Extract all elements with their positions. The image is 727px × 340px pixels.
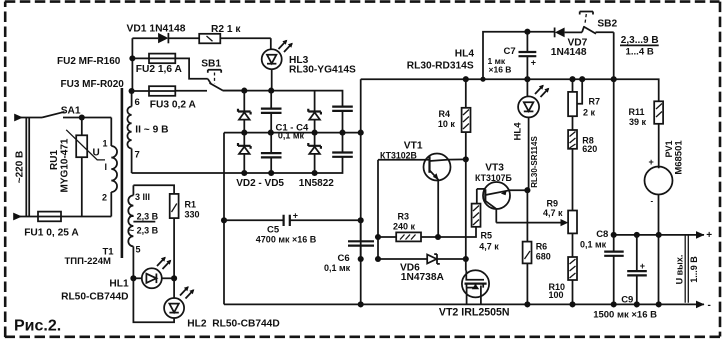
svg-text:+: +: [706, 230, 712, 241]
capacitor C1 (upper): [261, 91, 282, 133]
node: C9 bottom rail dot: [634, 301, 640, 307]
svg-text:FU1 0, 25 A: FU1 0, 25 A: [24, 228, 79, 239]
svg-text:-: -: [651, 197, 654, 206]
svg-text:1N4738A: 1N4738A: [401, 272, 445, 283]
wire: +output bus: [614, 234, 704, 236]
resistor R4: [462, 79, 471, 159]
svg-text:R5: R5: [481, 231, 493, 241]
node: top rail dot at VD column 1: [241, 88, 247, 94]
bridge top rail: [223, 91, 343, 106]
node: R10 bottom rail dot: [569, 301, 575, 307]
bridge middle rail: [224, 132, 361, 134]
svg-text:1...4 В: 1...4 В: [626, 46, 654, 57]
node: bus dot at R7: [569, 76, 575, 82]
svg-text:1500 мк ×16 В: 1500 мк ×16 В: [593, 310, 657, 321]
output terminal double bars: [685, 235, 688, 303]
node: HL1 right junction dot: [171, 275, 177, 281]
svg-text:SB1: SB1: [201, 59, 221, 70]
capacitor C4 (lower right): [332, 133, 353, 158]
LED HL4: [518, 79, 549, 190]
transistor VT1 КТ3102В: [378, 154, 466, 238]
svg-text:FU3 0,2 A: FU3 0,2 A: [150, 100, 197, 111]
varistor RU1: [66, 118, 105, 217]
wire: left vertical FU2/FU3 feeder: [131, 38, 133, 91]
svg-text:RL30-YG414S: RL30-YG414S: [289, 65, 356, 76]
svg-text:0,1 мк: 0,1 мк: [324, 263, 351, 273]
winding II (pins 6-7): [127, 91, 131, 173]
capacitor C2 (lower): [261, 133, 282, 173]
svg-text:HL1: HL1: [109, 278, 129, 289]
svg-text:U: U: [93, 148, 100, 159]
zener VD6 1N4738A: [378, 254, 466, 264]
node: +output dot at C8: [611, 232, 617, 238]
svg-text:1: 1: [103, 139, 108, 149]
node: R4/VT1 collector dot: [463, 156, 469, 162]
resistor R1: [170, 194, 179, 278]
winding III (pins 3-5) with center tap: [128, 185, 155, 278]
node: HL1 left junction dot: [130, 275, 136, 281]
capacitor C3 (upper right): [332, 106, 353, 133]
wire: C7 feeder L from bus up to VD7 line: [483, 32, 554, 79]
svg-text:+: +: [531, 57, 536, 67]
wire: VT1 base vertical x=378: [377, 160, 379, 259]
bridge bottom rail: [132, 157, 343, 173]
svg-text:VD1 1N4148: VD1 1N4148: [127, 24, 186, 35]
svg-text:R4: R4: [439, 109, 451, 119]
transformer T1 core: [121, 88, 124, 258]
svg-text:2 к: 2 к: [583, 107, 596, 117]
LED HL3: [262, 38, 293, 90]
capacitor C8: [604, 235, 624, 305]
schottky diode VD5 (lower right): [308, 133, 321, 173]
node: C8 bottom rail dot: [611, 301, 617, 307]
svg-text:М68501: М68501: [673, 140, 684, 175]
svg-text:FU3 MF-R020: FU3 MF-R020: [61, 79, 125, 90]
svg-text:6: 6: [135, 97, 140, 108]
svg-text:Рис.2.: Рис.2.: [14, 318, 61, 335]
node: middle rail dots: [241, 130, 247, 136]
node: VT3 emitter / HL4 column dot: [524, 187, 530, 193]
node: PV1 dot on +output: [656, 232, 662, 238]
wire: SB2 column down to +output: [613, 32, 615, 235]
node: SA1 row junction dot: [79, 114, 85, 120]
resistor R7 with tap: [568, 79, 582, 130]
svg-text:620: 620: [582, 144, 597, 154]
wire: bottom loop rail: [224, 303, 704, 305]
fuse FU3: [132, 86, 207, 96]
svg-text:×16 В: ×16 В: [489, 65, 512, 75]
pushbutton SB2: [580, 12, 614, 34]
wire: pin3 to R1 top: [133, 185, 174, 194]
svg-text:SB2: SB2: [597, 19, 617, 30]
svg-text:C8: C8: [596, 229, 608, 240]
svg-text:HL4: HL4: [455, 48, 475, 59]
svg-text:RL30-RD314S: RL30-RD314S: [407, 60, 474, 71]
svg-text:ТПП-224М: ТПП-224М: [65, 256, 111, 267]
svg-text:2: 2: [102, 193, 107, 203]
svg-text:КТ3107Б: КТ3107Б: [475, 173, 513, 183]
svg-text:680: 680: [536, 251, 551, 261]
svg-text:RL50-CB744D: RL50-CB744D: [212, 318, 279, 329]
schottky diode VD3 (upper right): [308, 91, 321, 133]
node: top rail dot at C column 1 / HL3: [268, 88, 274, 94]
LED HL2: [133, 278, 194, 322]
schottky diode VD4 (lower left): [238, 133, 251, 173]
svg-text:RL30-SR114S: RL30-SR114S: [530, 136, 539, 188]
node: bus dot at HL4 column: [524, 76, 530, 82]
node: C5 row left dot: [221, 217, 227, 223]
svg-text:КТ3102В: КТ3102В: [380, 150, 417, 160]
svg-text:10 к: 10 к: [438, 119, 456, 129]
svg-text:4700 мк ×16 В: 4700 мк ×16 В: [256, 235, 317, 245]
node: VD6 row dot at x=378: [375, 256, 381, 262]
svg-text:II ~ 9 В: II ~ 9 В: [135, 124, 168, 135]
node: bus dot at R7 tap: [579, 76, 585, 82]
svg-text:RL50-CB744D: RL50-CB744D: [61, 292, 128, 303]
transistor VT3 КТ3107Б: [477, 182, 528, 223]
svg-text:~ 2,3 В: ~ 2,3 В: [129, 226, 159, 236]
svg-text:1N5822: 1N5822: [299, 178, 334, 189]
svg-text:5: 5: [136, 245, 141, 255]
svg-text:R3: R3: [398, 211, 410, 221]
svg-text:-: -: [708, 300, 711, 311]
capacitor C5 (electrolytic 4700мк): [224, 210, 361, 226]
schottky diode VD2 (upper left): [238, 91, 251, 133]
capacitor C6: [348, 220, 374, 259]
svg-text:C6: C6: [338, 253, 350, 264]
diode VD1: [132, 33, 199, 43]
svg-text:R2 1 к: R2 1 к: [211, 24, 241, 35]
svg-text:R9: R9: [547, 198, 559, 208]
resistor R6: [523, 190, 532, 304]
node: bottom loop dot: [358, 301, 364, 307]
resistor R8: [568, 130, 577, 211]
capacitor C7 (1 мк): [519, 32, 537, 79]
node: bus dot at C7 feeder: [480, 77, 485, 82]
resistor R11: [654, 101, 663, 168]
svg-text:39 к: 39 к: [629, 117, 647, 127]
pushbutton SB1: [208, 70, 244, 91]
svg-text:C7: C7: [504, 46, 516, 57]
svg-text:0,1 мк: 0,1 мк: [278, 131, 305, 141]
svg-text:R11: R11: [629, 107, 645, 117]
diode VD7: [555, 28, 582, 38]
svg-text:100: 100: [549, 290, 564, 300]
svg-text:1...9 В: 1...9 В: [689, 256, 699, 283]
resistor R3: [378, 232, 476, 241]
resistor R5: [472, 204, 481, 237]
output minus arrowhead: [696, 301, 705, 309]
svg-text:VT2 IRL2505N: VT2 IRL2505N: [439, 306, 510, 318]
fuse FU1: [13, 212, 111, 222]
svg-text:R7: R7: [589, 97, 601, 107]
svg-text:+: +: [649, 157, 654, 167]
node: VD6 row left dot: [358, 256, 364, 262]
potentiometer R9: [568, 211, 577, 258]
svg-text:I: I: [105, 162, 108, 172]
switch SA1: [14, 112, 111, 122]
svg-text:330: 330: [185, 209, 200, 219]
LED HL1: [133, 257, 174, 289]
wire: right top bus y=79.2: [361, 79, 659, 101]
svg-text:HL2: HL2: [187, 318, 207, 329]
svg-text:HL4: HL4: [513, 122, 524, 141]
node: C7 top dot: [524, 29, 530, 35]
svg-text:1N4148: 1N4148: [551, 47, 587, 58]
node: +output dot at C9: [634, 232, 640, 238]
wire: collector column down to VD6 row: [465, 159, 467, 259]
wire: DC node vertical (x=360.7) from right bus down to bottom loop: [360, 79, 362, 304]
svg-text:R1: R1: [185, 200, 197, 210]
svg-text:C9: C9: [621, 295, 633, 306]
svg-text:3 III: 3 III: [135, 192, 150, 202]
svg-text:4,7 к: 4,7 к: [543, 208, 563, 218]
fuse FU2: [132, 54, 207, 79]
node: bottom rail dots: [241, 170, 247, 176]
wire: left DC vertical x=224: [223, 133, 225, 305]
winding I (primary, pins 1-2): [111, 118, 117, 217]
node: feeder-FU3 junction dot: [129, 88, 135, 94]
svg-text:U вых.: U вых.: [674, 255, 684, 285]
wire: mains double line: [26, 118, 29, 217]
wire: VT3 collector to R9 wiper: [496, 222, 564, 224]
node: C5 row right dot: [358, 217, 364, 223]
svg-text:+: +: [293, 210, 298, 220]
meter PV1 M68501: [645, 157, 673, 304]
svg-text:FU2 1,6 A: FU2 1,6 A: [136, 64, 183, 75]
svg-text:VD2 - VD5: VD2 - VD5: [236, 178, 284, 189]
svg-text:7: 7: [135, 149, 140, 160]
svg-text:240 к: 240 к: [393, 222, 416, 232]
node: R6 bottom rail dot: [524, 301, 530, 307]
svg-text:FU2 MF-R160: FU2 MF-R160: [57, 56, 121, 67]
node: bus dot at SB2 column: [611, 76, 617, 82]
svg-text:0,1 мк: 0,1 мк: [580, 240, 607, 250]
svg-text:SA1: SA1: [61, 106, 81, 117]
node: VD6 right dot: [463, 256, 469, 262]
resistor R2: [199, 34, 271, 44]
node: bus dot at R4: [463, 76, 469, 82]
svg-text:R6: R6: [536, 242, 548, 252]
capacitor C9 (electrolytic 1500мк): [627, 235, 647, 305]
node: PV1 dot on bottom rail: [656, 301, 662, 307]
node: R3 row left dot: [375, 234, 381, 240]
svg-text:~220 В: ~220 В: [15, 151, 26, 184]
svg-text:+: +: [640, 261, 645, 271]
svg-text:PV1: PV1: [664, 140, 674, 157]
svg-text:~ 2,3 В: ~ 2,3 В: [129, 212, 159, 222]
resistor R10: [568, 257, 577, 304]
svg-text:RU1: RU1: [49, 150, 60, 170]
node: VT1 emitter/R3 dot: [435, 234, 441, 240]
node: feeder-FU2 junction dot: [129, 55, 135, 61]
MOSFET VT2 IRL2505N: [462, 259, 489, 304]
svg-text:4,7 к: 4,7 к: [479, 242, 499, 252]
svg-text:MYG10-471: MYG10-471: [59, 138, 70, 192]
